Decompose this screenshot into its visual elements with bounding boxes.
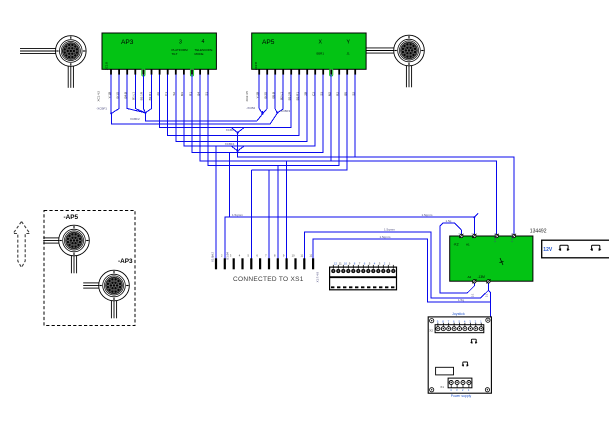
terminal strip X10 — [330, 261, 397, 289]
funnel diagonals XCB3 — [231, 128, 244, 133]
svg-text:XC2:B: XC2:B — [254, 62, 258, 70]
svg-text:CONNECTED TO XS1: CONNECTED TO XS1 — [233, 276, 304, 283]
svg-text:X: X — [319, 40, 323, 46]
svg-text:1.5qmm: 1.5qmm — [232, 213, 243, 217]
svg-text:AP3: AP3 — [121, 39, 134, 46]
wire AP5 pin3 to XCBF3 junction — [275, 75, 277, 113]
svg-text:3: 3 — [179, 40, 182, 46]
connector XS-right — [361, 35, 424, 87]
wire drop to XS1 terminal 5 — [250, 170, 252, 258]
wire bus B XS1 terminal 11 to relay K2 bottom pin — [304, 232, 488, 298]
wire AP3 pin13 to AP5 pin11 — [208, 75, 339, 166]
wire AP3 pin7 to AP5 pin5 — [160, 75, 292, 128]
AP3 pins — [97, 69, 209, 102]
svg-text:X1: X1 — [440, 385, 444, 389]
svg-text:Joystick: Joystick — [452, 312, 465, 316]
wire AP3 pin3 to net XCBF2 bus — [127, 75, 262, 121]
svg-text:4: 4 — [202, 39, 205, 45]
funnel diagonals XCBF4 — [231, 146, 244, 151]
wire AP5 pin10 drop — [330, 75, 332, 161]
wire bus A to relay K2 pin2 — [229, 217, 474, 235]
svg-text:1.5qmm: 1.5qmm — [510, 233, 514, 242]
svg-text:11: 11 — [339, 261, 342, 265]
svg-text:-XCBF3: -XCBF3 — [280, 109, 291, 113]
wire relay K2 to joystick box — [488, 290, 490, 317]
svg-text:X2: X2 — [429, 329, 433, 333]
svg-text:A1: A1 — [466, 243, 470, 247]
svg-text:Y: Y — [347, 40, 351, 46]
joystick module AP5 — [252, 33, 366, 70]
svg-text:A2: A2 — [468, 275, 472, 279]
svg-text:J1: J1 — [347, 52, 351, 56]
wire drop to XS1 terminal 1 — [215, 146, 217, 258]
svg-text:-AP3: -AP3 — [118, 258, 133, 265]
svg-text:MODE: MODE — [195, 52, 204, 56]
svg-text:1.5q: 1.5q — [446, 219, 452, 223]
svg-text:TILT: TILT — [172, 52, 178, 56]
svg-text:1.5qmm: 1.5qmm — [493, 233, 497, 242]
wire AP5 pin13 drop to long bus — [354, 75, 356, 157]
dashed enclosure — [44, 211, 135, 326]
wire drop to XS1 terminal 2 — [225, 153, 230, 259]
wire AP3 pin10 to AP5 pin8 — [184, 75, 315, 146]
joystick module AP3 — [102, 33, 216, 70]
XS1 terminal row — [212, 254, 319, 283]
svg-text:XC2:4:5: XC2:4:5 — [245, 91, 249, 102]
wire AP5 pin2 to XCB2 junction — [263, 75, 268, 114]
wire bus C XS1 terminal 12 to joystick node — [313, 239, 490, 302]
wire drop to XS1 terminal 8 — [277, 166, 279, 259]
svg-text:1.5q: 1.5q — [458, 298, 464, 302]
svg-text:2:1: 2:1 — [485, 293, 489, 297]
svg-text:2:1: 2:1 — [458, 232, 462, 236]
relay pins — [458, 232, 517, 297]
svg-text:XCBF2: XCBF2 — [130, 117, 140, 121]
svg-text:2:1: 2:1 — [471, 232, 475, 236]
wire AP3 pin11 to AP5 pin9 — [192, 75, 323, 153]
svg-text:-13M: -13M — [478, 275, 486, 279]
svg-text:-XCB2: -XCB2 — [246, 106, 255, 110]
wire AP3 pin1 to net XCBF1 bus — [111, 75, 277, 124]
wire AP3 pin4 to XCBF2 junction — [135, 75, 145, 113]
svg-text:XC1:B: XC1:B — [104, 62, 108, 70]
svg-text:Power supply: Power supply — [451, 394, 472, 398]
svg-text:1.5qmm: 1.5qmm — [422, 213, 433, 217]
junction tick on bus A — [474, 213, 478, 217]
svg-text:X1:7:4:9: X1:7:4:9 — [316, 272, 320, 283]
svg-text:XCB3: XCB3 — [226, 128, 234, 132]
wire hook relay K2 pin1 to bottom pin A2 — [440, 223, 474, 293]
svg-text:-K2: -K2 — [454, 243, 459, 247]
svg-text:12V: 12V — [543, 247, 553, 253]
wire drop to XS1 terminal 9 — [286, 161, 288, 258]
12V link box — [542, 240, 609, 258]
wire AP3 pin8 to AP5 pin6 — [168, 75, 300, 136]
wire AP3 pin5 to XCBF2 junction — [143, 75, 145, 113]
svg-text:B5R1: B5R1 — [317, 52, 325, 56]
svg-text:2:1: 2:1 — [471, 293, 475, 297]
svg-text:1.5qmm: 1.5qmm — [384, 228, 395, 232]
svg-text:AP5: AP5 — [262, 39, 275, 46]
wire AP3 pin2 to XCBF1 junction — [111, 75, 119, 114]
wire XCB3 output bus to relay K2 pin4 — [238, 133, 514, 236]
svg-text:XCBF4: XCBF4 — [225, 142, 235, 146]
svg-text:-AP5: -AP5 — [64, 214, 79, 221]
relay module 134492 — [450, 229, 547, 282]
svg-text:12: 12 — [334, 261, 338, 265]
wire AP3 pin12 bus to relay K2 pin3 — [200, 75, 497, 236]
dashed direction arrow — [13, 222, 30, 268]
connector XS-left — [20, 36, 86, 88]
wire drop to XS1 terminal 7 — [268, 170, 270, 258]
connector -AP3 — [83, 270, 129, 318]
svg-text:B1:B4: B1:B4 — [225, 252, 229, 260]
wire AP5 pin4 to XCBF3 junction — [277, 75, 283, 113]
wire AP3 pin6 to XCBF2 junction — [145, 75, 151, 113]
joystick interface box — [428, 312, 491, 398]
svg-text:134492: 134492 — [530, 229, 547, 235]
svg-text:10: 10 — [344, 261, 348, 265]
svg-text:-XCBF1: -XCBF1 — [96, 106, 107, 110]
wire AP5 pin12 bus y170 — [251, 75, 347, 171]
svg-text:1.5qmm: 1.5qmm — [380, 235, 391, 239]
wire AP5 pin1 to XCB2 junction — [259, 75, 262, 114]
AP5 pins — [245, 69, 355, 102]
connector -AP5 — [43, 225, 89, 273]
wire AP3 pin9 to AP5 pin7 — [176, 75, 307, 142]
svg-text:XC1:4:2: XC1:4:2 — [97, 91, 101, 102]
